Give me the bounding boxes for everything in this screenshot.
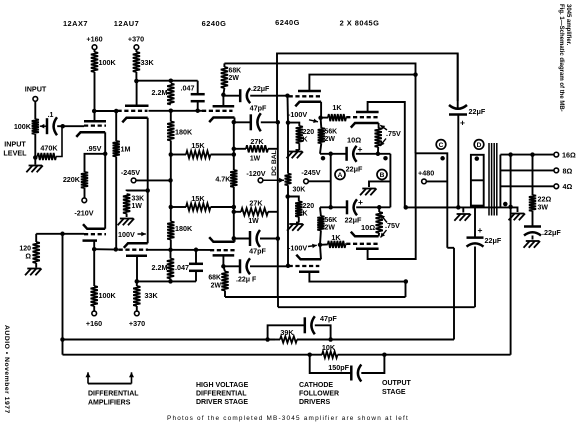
label DC BAL (rotated) xyxy=(271,150,278,176)
svg-text:K: K xyxy=(303,211,308,218)
svg-text:B: B xyxy=(380,172,385,179)
svg-text:DRIVERS: DRIVERS xyxy=(299,399,330,406)
node 1M top xyxy=(114,109,119,114)
wire zobel cap to ground xyxy=(532,236,534,240)
svg-text:47pF: 47pF xyxy=(249,247,266,256)
resistor 39K xyxy=(275,336,297,342)
capacitor 47pF (upper) xyxy=(234,113,278,131)
svg-text:2W: 2W xyxy=(325,136,336,143)
svg-text:+370: +370 xyxy=(128,35,144,44)
resistor 33K (12AU7 plate load, lower) xyxy=(133,281,140,310)
svg-text:+370: +370 xyxy=(129,319,145,328)
node -245V / 180K column xyxy=(168,178,173,183)
node 12AX7 plate / 12AU7 grid (upper) xyxy=(92,109,97,114)
label 1M xyxy=(121,145,131,154)
ground (input pot) xyxy=(26,166,42,173)
wire 1M-node rail (upper) xyxy=(93,110,95,112)
resistor 180K (upper) xyxy=(167,111,174,155)
wire 8045G-2 plate to transformer xyxy=(368,207,416,259)
resistor 10K xyxy=(322,352,338,358)
wire -120V to DC BAL wiper xyxy=(263,178,284,183)
node pot-bottom / 470K junction xyxy=(33,155,38,160)
capacitor 47pF (39K bypass) xyxy=(268,316,331,339)
wire 6240G-2 grid to .22uF (upper) xyxy=(288,95,289,98)
label 56K 2W (upper) xyxy=(325,129,338,144)
svg-text:120: 120 xyxy=(19,246,31,253)
resistor 27K 1W (upper) xyxy=(234,145,278,152)
wire B+ feed vertical xyxy=(453,248,455,340)
node input grid / feedback-divider top xyxy=(60,124,64,129)
svg-text:AMPLIFIERS: AMPLIFIERS xyxy=(88,400,131,407)
label 4.7K xyxy=(215,175,231,184)
tube label 6240G (driver 2) xyxy=(275,18,300,27)
svg-text:16Ω: 16Ω xyxy=(562,150,576,159)
label +370 (lower) xyxy=(129,319,145,328)
svg-text:12AU7: 12AU7 xyxy=(114,19,140,28)
label -100V (lower) with arrow xyxy=(288,244,317,253)
label 68K 2W (lower) xyxy=(208,275,221,290)
resistor 470K (grid leak) xyxy=(38,128,63,160)
label DIFFERENTIAL AMPLIFIERS xyxy=(88,391,139,407)
svg-text:.75V: .75V xyxy=(385,221,400,230)
wire 220K to ground (upper) xyxy=(296,143,300,150)
node 12AU7-B plate / 33K (lower) xyxy=(135,279,140,284)
wire 220K corner (upper) xyxy=(288,123,299,126)
wire D box mid line xyxy=(471,179,484,181)
wire feedback takeoff xyxy=(510,155,512,207)
svg-text:.75V: .75V xyxy=(386,129,401,138)
label 33K (lower) xyxy=(145,291,159,300)
wire bottom rail (10K) xyxy=(63,207,511,355)
svg-text:1W: 1W xyxy=(250,156,261,163)
wire 220K to ground (lower) xyxy=(296,217,299,223)
ground (220K upper) xyxy=(287,152,303,159)
label 100V with arrow xyxy=(118,230,146,239)
svg-text:2W: 2W xyxy=(229,75,240,82)
svg-text:.047: .047 xyxy=(181,84,195,93)
svg-text:-210V: -210V xyxy=(74,209,93,218)
svg-text:47pF: 47pF xyxy=(250,104,267,113)
label 22uF (lower) xyxy=(345,216,362,225)
label 10 ohm (lower) xyxy=(361,223,375,232)
svg-text:22μF: 22μF xyxy=(345,216,362,225)
label -245V (left) xyxy=(121,168,140,177)
wire 12AU7-A plate lead xyxy=(136,81,138,106)
circled terminal D xyxy=(474,140,484,150)
capacitor .047 (lower) xyxy=(189,250,203,282)
wire 100K to 12AX7 plate xyxy=(94,72,96,121)
resistor 68K 2W (lower) xyxy=(221,266,228,297)
node 47pF left (upper) xyxy=(232,120,237,125)
terminal 16 ohm xyxy=(554,152,559,157)
svg-text:-245V: -245V xyxy=(301,168,320,177)
resistor 33K 1W (12AU7 cathode) xyxy=(123,194,130,214)
wire ground stub 2 xyxy=(516,207,518,212)
svg-text:22μF: 22μF xyxy=(469,107,486,116)
svg-text:3045 amplifier.: 3045 amplifier. xyxy=(565,4,571,46)
capacitor 150pF (10K bypass) xyxy=(310,355,385,382)
resistor 2.2M (upper) xyxy=(167,84,174,105)
label INPUT LEVEL xyxy=(3,140,27,158)
wire ground rail (under transformer) xyxy=(406,206,516,208)
label 56K 2W (lower) xyxy=(325,217,338,232)
label + (filter cap) xyxy=(460,118,465,128)
wire 6240G-1 cathode lead (lower) xyxy=(233,238,236,241)
wire 8045G-1 plate to transformer xyxy=(368,102,405,207)
wire 6240G-2 cathode lead (upper) xyxy=(320,102,322,118)
node 10K left xyxy=(307,352,312,357)
svg-text:150pF: 150pF xyxy=(328,363,349,372)
node .047 bottom (upper) xyxy=(195,108,200,113)
svg-text:DIFFERENTIAL: DIFFERENTIAL xyxy=(196,391,247,398)
label -100V (upper) with arrow xyxy=(288,110,318,123)
triode 6240G-1 (lower) xyxy=(209,237,234,255)
svg-text:DRIVER STAGE: DRIVER STAGE xyxy=(196,399,248,406)
capacitor 22uF (lower cathode) xyxy=(347,199,357,215)
node cathode / 1K / 56K (lower) xyxy=(318,243,323,248)
label 1K (upper) xyxy=(332,103,342,112)
terminal 8 ohm xyxy=(554,168,559,173)
node .047 top (lower) xyxy=(194,248,199,253)
svg-text:6240G: 6240G xyxy=(202,19,227,28)
svg-text:470K: 470K xyxy=(40,144,58,153)
circled terminal B xyxy=(377,170,387,180)
label +370 (upper) xyxy=(128,35,144,44)
wire 22 ohm to .22uF xyxy=(532,211,534,227)
svg-text:220: 220 xyxy=(303,129,315,136)
wire feedback line (39K rail) xyxy=(63,339,276,341)
decorative dot A-left xyxy=(321,156,326,161)
wire 1K to 8045G-2 grid xyxy=(345,243,348,245)
wire 8045G-2 cathode to 10 ohm xyxy=(378,233,381,236)
label 30K xyxy=(293,187,306,194)
label + (lower mid 22uF) xyxy=(478,225,483,235)
node feedback rail top xyxy=(60,232,65,237)
ground (A/B block) xyxy=(360,189,376,196)
caption faint bottom xyxy=(167,415,409,422)
transformer primary box (D) xyxy=(471,155,484,206)
svg-text:Ω: Ω xyxy=(25,254,31,261)
node filter cap / ground rail xyxy=(456,205,461,210)
wire feedback rail xyxy=(62,234,64,355)
wire 39K to 47pF node xyxy=(297,339,454,341)
wire 220K top tie (upper) xyxy=(287,96,290,123)
capacitor 22uF (upper cathode) xyxy=(347,146,357,162)
label +480 xyxy=(418,169,434,178)
circled terminal A xyxy=(335,170,345,180)
wire 12AU7-A cathode lead xyxy=(147,118,149,243)
node primary D tap xyxy=(475,156,480,161)
node 2.2M top (upper) xyxy=(169,78,174,83)
resistor 2.2M (lower) xyxy=(167,250,174,282)
svg-text:-100V: -100V xyxy=(288,244,307,253)
capacitor 22uF (lower mid) xyxy=(467,238,484,247)
node 68K / .22uF / plate (upper) xyxy=(221,93,226,98)
node 27K upper left xyxy=(232,147,237,152)
wire cathode node to 220K xyxy=(85,154,106,172)
ground (12AU7 cathode) xyxy=(118,219,134,226)
wire 6240G-1 plate lead (lower) xyxy=(222,255,224,266)
resistor 1K (lower) xyxy=(320,241,346,248)
label -120V xyxy=(246,169,265,178)
svg-text:30K: 30K xyxy=(293,187,306,194)
label 22uF (lower mid) xyxy=(485,236,502,245)
wire 12AU7 plate node to 2.2M/.047 (upper) xyxy=(136,80,197,82)
resistor 120 ohm xyxy=(33,234,40,268)
svg-text:A: A xyxy=(338,172,343,179)
label HIGH VOLTAGE DIFFERENTIAL DRIVER STAGE xyxy=(196,382,249,406)
svg-text:10Ω: 10Ω xyxy=(361,223,375,232)
svg-text:100V: 100V xyxy=(118,230,135,239)
node feedback / ground rail xyxy=(508,205,512,210)
wire 33K1W top tie xyxy=(127,190,148,193)
svg-text:C: C xyxy=(439,142,444,149)
svg-text:+480: +480 xyxy=(418,169,434,178)
svg-text:22Ω: 22Ω xyxy=(538,195,552,204)
label 10 ohm (upper) xyxy=(347,136,361,145)
node cathode / 33K1W junction xyxy=(145,188,150,193)
label 120 ohm xyxy=(19,246,31,261)
svg-text:+: + xyxy=(358,197,363,207)
label 22 ohm 3W xyxy=(538,195,552,212)
node 10 ohm top (lower) xyxy=(377,205,382,210)
triode 8045G-1 (upper) xyxy=(346,112,378,128)
svg-text:27K: 27K xyxy=(250,137,264,146)
label 39K xyxy=(280,328,294,337)
svg-text:1W: 1W xyxy=(132,203,143,210)
wire 180K column middle xyxy=(170,155,172,208)
ground (120 ohm) xyxy=(25,269,41,276)
wire secondary 4 ohm tap xyxy=(500,185,553,187)
label 27K 1W (lower) xyxy=(248,199,263,226)
svg-text:Photos of the completed MB-304: Photos of the completed MB-3045 amplifie… xyxy=(167,415,409,422)
svg-text:+: + xyxy=(478,225,483,235)
wire primary right below box xyxy=(447,207,454,247)
svg-text:2W: 2W xyxy=(325,225,336,232)
wire plate node to 12AU7 grid xyxy=(94,110,117,112)
svg-text:1K: 1K xyxy=(332,103,342,112)
svg-text:+: + xyxy=(460,118,465,128)
label 47pF (upper) xyxy=(250,104,267,113)
svg-text:180K: 180K xyxy=(175,128,193,137)
label 47pF (bypass) xyxy=(320,314,337,323)
svg-text:220K: 220K xyxy=(63,175,81,184)
svg-text:.95V: .95V xyxy=(87,144,102,153)
label -245V (right) xyxy=(301,168,320,177)
svg-text:100K: 100K xyxy=(99,58,117,67)
label 33K (upper) xyxy=(141,58,155,67)
terminal -120V xyxy=(258,178,263,183)
terminal +160 (upper) xyxy=(92,45,97,50)
label 22uF (top right) xyxy=(469,107,486,116)
svg-text:27K: 27K xyxy=(249,199,263,208)
node 33K / 2.2M junction (upper) xyxy=(134,79,139,84)
svg-text:4.7K: 4.7K xyxy=(215,175,231,184)
caption Fig.1 line 2 (rotated) xyxy=(565,4,571,46)
node ground rail left xyxy=(404,205,409,210)
label .75V (upper) with arrows xyxy=(380,125,401,146)
terminal +370 (upper) xyxy=(134,45,139,50)
resistor 1M xyxy=(113,111,120,249)
caption AUDIO November 1977 (rotated) xyxy=(3,325,10,414)
svg-text:8Ω: 8Ω xyxy=(563,166,573,175)
tube label 12AX7 xyxy=(63,19,88,28)
transformer primary box (C) xyxy=(416,153,448,207)
wire 6240G-1 cathode lead (upper) xyxy=(233,118,236,123)
capacitor .047 (upper) xyxy=(191,81,205,111)
wire filter cap to ground rail xyxy=(457,115,459,208)
resistor 56K 2W (upper) xyxy=(318,118,325,154)
label +160 (upper) xyxy=(86,35,102,44)
wire 68K lower rail xyxy=(225,282,406,298)
node 15K upper right xyxy=(232,152,237,157)
resistor 1K (upper) xyxy=(321,114,346,121)
wire 220K corner (lower) xyxy=(288,197,299,202)
label .047 (upper) xyxy=(181,84,195,93)
node 10K right xyxy=(382,352,387,357)
wire rail C (6240G-2 plate, upper) xyxy=(309,75,415,91)
node 2.2M bottom (lower) xyxy=(168,279,173,284)
node 1M bottom xyxy=(114,247,119,252)
ground (secondary) xyxy=(509,214,525,221)
terminal +480 xyxy=(422,179,427,184)
resistor 22 ohm 3W xyxy=(529,195,536,211)
wire pot to lower grid node xyxy=(287,197,289,266)
node A-block top-left xyxy=(328,152,333,157)
svg-text:22μF: 22μF xyxy=(485,236,502,245)
wire secondary 16 ohm tap xyxy=(500,154,553,156)
svg-text:.1: .1 xyxy=(48,112,54,119)
svg-text:+: + xyxy=(358,144,363,154)
stage bracket (differential amplifiers) xyxy=(86,372,135,383)
svg-text:100K: 100K xyxy=(14,122,32,131)
wire 6240G-2 plate lead (lower) xyxy=(309,272,405,282)
label 68K 2W (upper) xyxy=(229,68,242,83)
wire -245V terminal to 180K column xyxy=(136,179,170,181)
svg-text:.22μF: .22μF xyxy=(542,228,561,237)
svg-text:.047: .047 xyxy=(175,263,189,272)
svg-text:HIGH VOLTAGE: HIGH VOLTAGE xyxy=(196,382,249,389)
node 15K upper left xyxy=(169,152,174,157)
resistor 10 ohm (upper) xyxy=(375,128,382,154)
wire +480 to primary xyxy=(427,180,448,182)
svg-text:LEVEL: LEVEL xyxy=(3,149,27,158)
node 220K tie (upper) xyxy=(286,120,291,125)
svg-text:10K: 10K xyxy=(322,343,336,352)
label 220K (tail) xyxy=(63,175,81,184)
label 220K (upper) xyxy=(303,129,315,144)
potentiometer 30K DC BAL xyxy=(285,123,292,197)
label .22uF (zobel) xyxy=(542,228,561,237)
node 15K lower right xyxy=(232,205,237,210)
svg-text:33K: 33K xyxy=(141,58,155,67)
wire A-block bottom xyxy=(320,206,390,208)
node cathode / 1K / 56K (upper) xyxy=(318,116,323,121)
label CATHODE FOLLOWER DRIVERS xyxy=(299,382,339,406)
wire lower grid bus xyxy=(94,248,210,251)
svg-text:39K: 39K xyxy=(280,328,294,337)
svg-text:68K: 68K xyxy=(208,275,221,282)
capacitor .22uF (lower) xyxy=(223,258,288,274)
node feedback rail / 39K rail xyxy=(60,337,65,342)
resistor 220K (6240G-2 grid leak, upper) xyxy=(296,126,303,143)
decorative dot B-right xyxy=(383,156,388,161)
wire lower mid rail xyxy=(278,306,475,308)
svg-text:+160: +160 xyxy=(86,319,102,328)
node lower plate bus right xyxy=(404,279,409,284)
svg-text:-100V: -100V xyxy=(288,110,307,119)
triode 6240G-1 (upper) xyxy=(202,106,235,122)
wire 12AX7-A cathode lead xyxy=(104,132,106,154)
label 27K 1W (upper) xyxy=(250,137,265,163)
wire input jack to pot xyxy=(34,102,36,120)
ground (220K lower) xyxy=(287,224,303,231)
wire +160 to 100K xyxy=(94,50,96,52)
wire 8045G-1 cathode to 10 ohm xyxy=(378,123,380,128)
tube label 6240G (driver 1) xyxy=(202,19,227,28)
resistor 10 ohm (lower) xyxy=(376,207,383,233)
resistor 180K (lower) xyxy=(167,207,174,250)
wire lower plate bus xyxy=(137,280,196,282)
svg-text:15K: 15K xyxy=(191,141,205,150)
resistor 100K (12AX7 plate load, lower) xyxy=(91,249,98,311)
wire A-block top xyxy=(320,153,390,155)
resistor 4.7K (DC balance) xyxy=(230,170,237,187)
label 2.2M (lower) xyxy=(152,263,168,272)
svg-text:FOLLOWER: FOLLOWER xyxy=(299,391,339,398)
circled terminal C xyxy=(436,140,446,150)
svg-text:22μF: 22μF xyxy=(346,165,363,174)
triode 12AU7-A (upper) xyxy=(118,106,149,123)
terminal -210V xyxy=(82,198,87,203)
triode 6240G-2 (lower) xyxy=(289,255,321,272)
label .75V (lower) with arrows xyxy=(381,215,400,238)
ground (zobel) xyxy=(524,241,540,248)
node 47pF right (lower) xyxy=(276,236,281,241)
input terminal xyxy=(33,97,38,102)
wire 220K to -210V xyxy=(84,188,86,198)
triode 6240G-2 (upper) xyxy=(289,91,322,106)
svg-text:100K: 100K xyxy=(99,291,117,300)
svg-text:DIFFERENTIAL: DIFFERENTIAL xyxy=(88,391,139,398)
transformer core xyxy=(489,143,497,216)
label 180K (upper) xyxy=(175,128,193,137)
label 2.2M (upper) xyxy=(152,88,168,97)
node 30K bottom / 220K lower xyxy=(285,194,290,199)
terminal 4 ohm xyxy=(554,184,559,189)
svg-text:INPUT: INPUT xyxy=(4,140,26,149)
svg-text:3W: 3W xyxy=(538,205,549,212)
wire pot bottom to ground xyxy=(34,158,36,165)
svg-text:47pF: 47pF xyxy=(320,314,337,323)
capacitor .22uF (upper) xyxy=(223,88,287,103)
svg-text:2 X 8045G: 2 X 8045G xyxy=(340,19,380,28)
svg-text:56K: 56K xyxy=(325,217,338,224)
label INPUT xyxy=(25,85,47,94)
capacitor 22uF (B+ filter, top right) xyxy=(449,53,467,114)
wire 6240G-1 plate lead (upper) xyxy=(222,95,224,107)
wire 27K/47pF vertical xyxy=(277,122,279,297)
triode 12AU7-B (lower) xyxy=(119,243,148,256)
label 220K (lower) xyxy=(303,203,315,218)
label + (upper 22uF) xyxy=(358,144,363,154)
terminal -245V (left) xyxy=(131,178,136,183)
svg-text:INPUT: INPUT xyxy=(25,85,47,94)
label .22uF (lower) xyxy=(236,277,257,284)
svg-text:.22μF: .22μF xyxy=(251,86,270,93)
wire 12AX7-B cathode lead xyxy=(104,154,106,229)
svg-text:Fig. 1—Schematic diagram of th: Fig. 1—Schematic diagram of the MB- xyxy=(558,4,564,112)
